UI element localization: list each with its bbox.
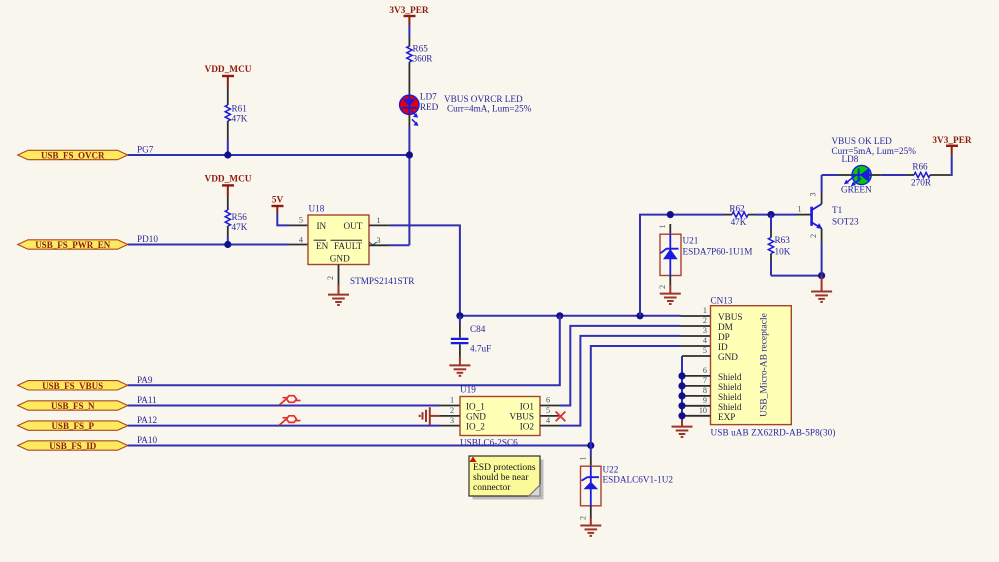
svg-text:T1: T1 [832,205,843,215]
svg-text:PA10: PA10 [137,435,157,445]
svg-text:R63: R63 [775,235,791,245]
net label PA9 [137,375,153,385]
svg-text:CN13: CN13 [711,296,733,306]
power 3V3_PER right [932,136,972,155]
resistor R56 [225,210,247,232]
svg-text:LD7: LD7 [420,92,437,102]
port flag USB_FS_VBUS [18,381,128,391]
svg-text:3: 3 [703,326,707,335]
note ESD protections [469,456,544,500]
junction rail/U21 riser [636,312,643,319]
svg-text:DP: DP [718,332,730,342]
power VDD_MCU upper [205,65,252,87]
LED LD7 red [400,92,439,126]
svg-text:IO_2: IO_2 [466,422,485,432]
transistor T1 [797,175,858,276]
junction PG7/FAULT [406,151,413,158]
svg-text:USB_FS_PWR_EN: USB_FS_PWR_EN [35,240,111,250]
svg-text:5: 5 [546,406,550,415]
power 3V3_PER top [389,6,429,25]
svg-text:Shield: Shield [718,372,742,382]
op-amp U18 body [299,204,415,287]
pin U18.2 GND wire [326,265,339,295]
svg-text:3: 3 [450,416,454,425]
junction emitter/ground [818,272,825,279]
resistor R63 [768,215,790,276]
svg-text:GND: GND [718,352,738,362]
port flag USB_FS_N [18,401,128,411]
wire R56 to PD10 net [227,226,229,245]
ground T1 [811,292,832,302]
diff pair marker PA12 [279,416,300,425]
wire VDD_MCU to R61 [227,87,229,105]
svg-text:R65: R65 [413,44,429,54]
svg-text:DM: DM [718,322,733,332]
svg-text:IO1: IO1 [520,401,535,411]
svg-text:U18: U18 [309,204,325,214]
diff pair marker PA11 [279,396,300,405]
svg-text:Shield: Shield [718,392,742,402]
svg-text:1: 1 [450,396,454,405]
junction PD10/R56 [224,241,231,248]
wire U21 to ground [669,276,671,294]
svg-text:3: 3 [809,192,818,196]
svg-text:ESD protections: ESD protections [473,463,536,473]
svg-text:R56: R56 [232,212,248,222]
svg-text:1: 1 [658,224,667,228]
svg-text:should be near: should be near [473,473,529,483]
TVS U21 [658,224,752,289]
wire R62 to T1 base [748,214,811,216]
resistor R62 [729,204,748,228]
pin U19.5 no connect X [540,412,565,422]
svg-text:5: 5 [299,216,303,225]
svg-text:ESDA7P60-1U1M: ESDA7P60-1U1M [683,247,753,257]
svg-text:R66: R66 [912,162,928,172]
pin CN13.6 shield [678,372,710,379]
svg-text:1: 1 [703,306,707,315]
wire U21 riser [640,215,670,316]
wire ID riser [591,346,711,446]
svg-text:GREEN: GREEN [841,184,872,194]
svg-text:3V3_PER: 3V3_PER [932,136,972,146]
svg-text:3V3_PER: 3V3_PER [389,6,429,16]
svg-text:VBUS: VBUS [509,412,534,422]
power VDD_MCU lower [205,175,252,197]
resistor R65 [407,44,433,64]
svg-text:VBUS OVRCR LED: VBUS OVRCR LED [444,94,523,104]
pin U19.2 GND wire [431,415,461,417]
svg-text:USB_FS_VBUS: USB_FS_VBUS [42,381,103,391]
port flag USB_FS_PWR_EN [18,240,128,250]
svg-text:2: 2 [579,516,588,520]
pin CN13.10 EXP [678,412,710,419]
svg-text:9: 9 [703,396,707,405]
junction rail/PA9 riser [556,312,563,319]
wire U22 drop [590,446,592,467]
svg-text:connector: connector [473,483,511,493]
svg-text:270R: 270R [911,178,932,188]
svg-text:Curr=5mA, Lum=25%: Curr=5mA, Lum=25% [832,146,917,156]
net label PA12 [137,415,157,425]
svg-text:GND: GND [466,412,486,422]
wire LD8 to R66 [871,174,914,176]
pin U18.3 FAULT wire [369,242,410,246]
svg-text:VDD_MCU: VDD_MCU [205,65,252,75]
svg-text:4: 4 [703,336,707,345]
wire LD7 to FAULT vertical [408,114,410,245]
wire PA12 [128,425,460,427]
svg-text:2: 2 [450,406,454,415]
svg-text:C84: C84 [470,324,486,334]
port flag USB_FS_ID [18,441,128,451]
pin U19.6 wire to DM [540,326,711,406]
wire T1 to ground [821,276,823,292]
wire 3V3_PER to R65 [408,25,410,46]
net label PA11 [137,395,157,405]
svg-text:PD10: PD10 [137,234,158,244]
LED LD8 green [841,154,872,195]
wire 5V to pin5 [277,214,308,226]
ground U22 [580,526,601,536]
svg-text:U22: U22 [603,464,619,474]
net label PG7 [137,145,154,155]
svg-text:4: 4 [299,235,303,244]
pin CN13.7 shield [678,382,710,389]
capacitor C84 [451,316,491,366]
svg-text:USB_FS_ID: USB_FS_ID [49,441,97,451]
ground U18 [328,295,349,305]
svg-text:PA9: PA9 [137,375,153,385]
wire PA9 [128,316,560,386]
svg-text:ID: ID [718,342,728,352]
resistor R61 [225,104,247,124]
junction PA10/ID riser [587,442,594,449]
svg-text:Shield: Shield [718,382,742,392]
svg-text:2: 2 [809,234,818,238]
svg-text:1: 1 [579,456,588,460]
wire PG7 [128,154,410,156]
svg-text:6: 6 [546,396,550,405]
svg-text:IN: IN [317,221,327,231]
TVS U22 [579,456,674,520]
wire collector to LD8 [822,174,852,176]
ground U19 sideways [420,407,430,425]
svg-text:R62: R62 [729,204,745,214]
svg-text:2: 2 [658,285,667,289]
pin U19.4 wire to DP [540,336,711,426]
net label PD10 [137,234,158,244]
wire VDD_MCU to R56 [227,197,229,211]
port flag USB_FS_OVCR [18,150,128,160]
svg-text:10: 10 [699,406,707,415]
svg-text:PA11: PA11 [137,395,157,405]
svg-text:IO_1: IO_1 [466,401,485,411]
svg-text:EN: EN [316,241,329,251]
svg-text:RED: RED [420,102,439,112]
svg-text:PG7: PG7 [137,145,154,155]
svg-text:IO2: IO2 [520,422,535,432]
pin U18.1 OUT wire [369,225,460,315]
svg-text:R61: R61 [232,104,248,114]
svg-text:10K: 10K [775,247,791,257]
svg-text:FAULT: FAULT [334,241,362,251]
svg-text:SOT23: SOT23 [832,217,859,227]
connector CN13 body [699,296,836,438]
svg-text:GND: GND [330,254,350,264]
wire PA11 [128,405,460,407]
wire R62 segment [670,214,732,216]
svg-text:8: 8 [703,386,707,395]
svg-text:4.7uF: 4.7uF [470,344,491,354]
ESD chip U19 [450,385,550,448]
svg-text:EXP: EXP [718,412,735,422]
wire VBUS rail [460,315,711,317]
svg-text:USBLC6-2SC6: USBLC6-2SC6 [460,438,518,448]
wire R63 to emitter [771,275,822,277]
svg-text:1: 1 [376,216,380,225]
wire PD10 [128,244,308,246]
svg-text:2: 2 [326,276,335,280]
wire R65 to LD7 [408,62,410,95]
svg-text:4: 4 [546,416,550,425]
power 5V [272,196,284,214]
svg-text:U21: U21 [683,236,699,246]
pin CN13.5 GND wire [682,356,711,427]
svg-text:5V: 5V [272,196,284,206]
ground C84 [449,365,470,375]
svg-text:1: 1 [797,204,801,213]
svg-text:2: 2 [703,316,707,325]
svg-text:VBUS OK LED: VBUS OK LED [832,136,893,146]
net label PA10 [137,435,157,445]
svg-text:Curr=4mA, Lum=25%: Curr=4mA, Lum=25% [447,104,532,114]
wire R66 to 3V3_PER [930,155,952,175]
wire PA10 [128,445,591,447]
pin CN13.9 shield [678,402,710,409]
resistor R66 [911,162,932,188]
svg-text:U19: U19 [460,385,476,395]
ground CN13 [672,427,693,437]
junction U21 top [667,211,674,218]
svg-text:OUT: OUT [344,221,363,231]
svg-text:USB_FS_N: USB_FS_N [51,401,95,411]
junction rail/C84 [456,312,463,319]
label VBUS OK LED [832,136,917,156]
svg-text:VBUS: VBUS [718,312,743,322]
ground U21 [660,294,681,304]
svg-text:47K: 47K [232,222,248,232]
svg-text:VDD_MCU: VDD_MCU [205,175,252,185]
svg-text:ESDALC6V1-1U2: ESDALC6V1-1U2 [603,474,674,484]
label VBUS OVRCR LED [444,94,532,114]
svg-text:PA12: PA12 [137,415,157,425]
svg-text:USB uAB ZX62RD-AB-5P8(30): USB uAB ZX62RD-AB-5P8(30) [711,427,836,437]
svg-text:USB_FS_OVCR: USB_FS_OVCR [41,151,105,161]
svg-text:3: 3 [376,236,380,245]
svg-text:USB_FS_P: USB_FS_P [51,421,94,431]
svg-text:USB_Micro-AB receptacle: USB_Micro-AB receptacle [760,313,770,417]
svg-text:7: 7 [703,376,707,385]
svg-text:Shield: Shield [718,402,742,412]
svg-text:360R: 360R [413,54,434,64]
svg-text:5: 5 [703,346,707,355]
svg-text:STMPS2141STR: STMPS2141STR [350,276,415,286]
wire R61 to PG7 net [227,121,229,155]
pin CN13.8 shield [678,392,710,399]
junction R63 top [767,211,774,218]
svg-text:47K: 47K [731,217,747,227]
junction PG7/R61 [224,151,231,158]
wire U22 to ground [590,506,592,526]
svg-text:47K: 47K [232,114,248,124]
port flag USB_FS_P [18,421,128,431]
svg-text:6: 6 [703,366,707,375]
